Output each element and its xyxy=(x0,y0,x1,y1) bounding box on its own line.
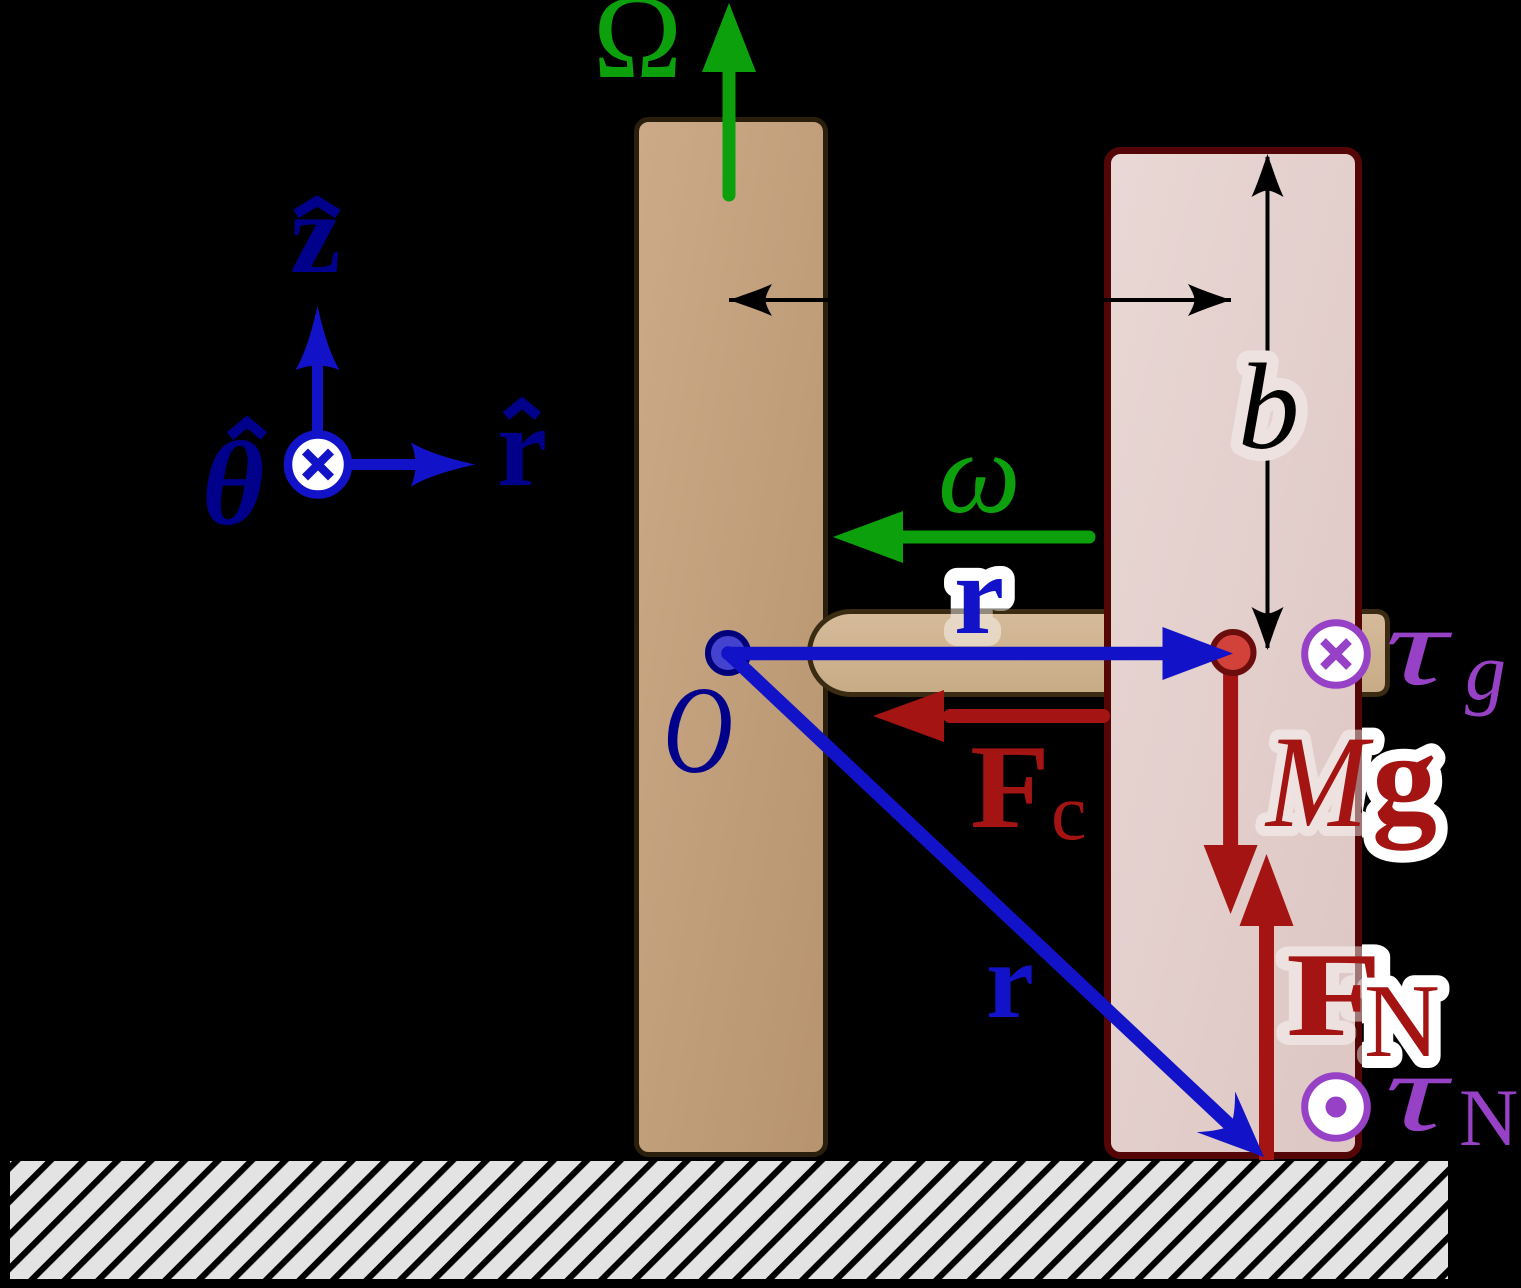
svg-text:r: r xyxy=(954,533,1004,658)
svg-text:τ: τ xyxy=(1385,585,1453,709)
dimension arrow b (wheel top to hub, double headed) xyxy=(1252,154,1284,650)
svg-text:F: F xyxy=(970,720,1050,853)
weight arrow Mg (dark red, down) xyxy=(1204,658,1258,914)
label F_N with halo xyxy=(1286,928,1440,1079)
label Mg with halo xyxy=(1264,707,1437,855)
wheel hub red dot xyxy=(1213,632,1254,673)
svg-text:c: c xyxy=(1051,769,1087,857)
ground (hatched floor) xyxy=(10,1161,1448,1279)
pivot blue dot O xyxy=(708,633,748,673)
coordinate frame: z-hat arrow xyxy=(296,306,340,464)
omega arrow (green, left) xyxy=(833,511,1089,563)
svg-text:r: r xyxy=(986,922,1034,1041)
label F_c xyxy=(970,720,1087,857)
svg-text:N: N xyxy=(1459,1072,1518,1163)
centripetal force arrow F_c (dark red, left) xyxy=(873,690,1103,742)
svg-text:τ: τ xyxy=(1385,1031,1453,1155)
svg-text:O: O xyxy=(663,662,733,800)
svg-text:b: b xyxy=(1238,338,1300,475)
wheel (edge-on disk) xyxy=(1108,151,1359,1156)
label tau_N xyxy=(1385,1031,1518,1163)
torque tau_N symbol (out of page) xyxy=(1305,1076,1368,1139)
coordinate frame: theta-hat circle (into page) xyxy=(288,435,348,495)
position vector r (blue, diagonal to contact point) xyxy=(728,653,1283,1177)
svg-text:ω: ω xyxy=(938,409,1021,538)
svg-text:g: g xyxy=(1372,707,1437,851)
left post (pivot column) xyxy=(637,120,826,1155)
normal force arrow F_N (dark red, up) xyxy=(1240,854,1294,1160)
svg-text:z: z xyxy=(290,170,341,297)
svg-text:M: M xyxy=(1264,708,1374,855)
axle xyxy=(810,612,1388,695)
label r (horizontal vector), halo opaque above axle, translucent over axle xyxy=(954,533,1004,658)
torque tau_g symbol (into page) xyxy=(1305,623,1368,686)
coordinate frame: r-hat arrow xyxy=(318,443,475,487)
position vector r (blue, horizontal) xyxy=(728,627,1233,680)
svg-text:Ω: Ω xyxy=(593,0,682,103)
label tau_g xyxy=(1385,585,1506,717)
dimension arrow (post center to wheel center, double headed) xyxy=(729,284,1231,316)
svg-text:g: g xyxy=(1465,626,1506,717)
Omega spin arrow (green, up) xyxy=(702,3,756,195)
